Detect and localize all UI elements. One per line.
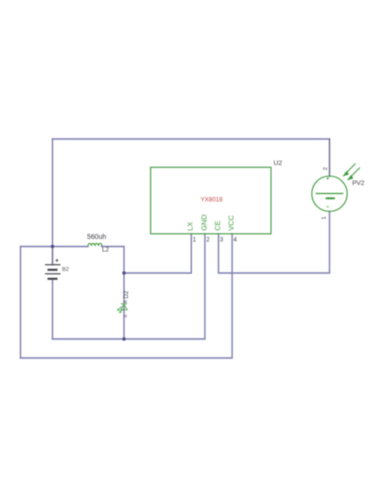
- svg-text:YX8018: YX8018: [201, 197, 224, 204]
- battery B2: [45, 265, 61, 279]
- junction node D2 top: [122, 271, 125, 274]
- svg-text:B2: B2: [62, 267, 69, 273]
- wire battery bottom to inner bottom row: [52, 279, 54, 339]
- svg-text:4: 4: [233, 237, 237, 244]
- svg-text:L2: L2: [102, 246, 109, 253]
- wire left vertical from top row down to battery row: [52, 139, 54, 247]
- wire PV2 top vertical: [329, 139, 331, 176]
- svg-text:560uh: 560uh: [87, 234, 106, 241]
- svg-text:PV2: PV2: [352, 180, 365, 187]
- wire top horizontal battery+ to PV2 top: [53, 138, 330, 140]
- wire battery row horizontal: [21, 246, 89, 248]
- svg-text:2: 2: [206, 237, 210, 244]
- wire battery top lead: [52, 247, 54, 265]
- svg-text:2: 2: [323, 167, 329, 170]
- svg-text:3: 3: [220, 237, 224, 244]
- svg-text:VCC: VCC: [227, 215, 236, 231]
- junction node D2 bottom: [122, 337, 125, 340]
- battery plus sign: [55, 259, 58, 262]
- LED D2: [118, 304, 128, 313]
- wire outer bottom horizontal to VCC: [21, 234, 233, 358]
- svg-text:CE: CE: [213, 220, 222, 230]
- junction node battery top: [51, 245, 54, 248]
- svg-text:LX: LX: [186, 222, 195, 231]
- wire CE pin down and right to PV2 bottom: [219, 211, 330, 273]
- wire D2 branch vertical: [123, 273, 125, 339]
- wire inner bottom horizontal to GND pin: [53, 234, 205, 339]
- svg-text:U2: U2: [274, 160, 283, 167]
- wire inductor right lead to corner: [102, 247, 125, 274]
- svg-text:D2: D2: [124, 290, 130, 298]
- solar cell PV2: [312, 176, 347, 211]
- IC U2 box YX8018: [151, 167, 271, 234]
- light arrows for PV2: [343, 164, 360, 181]
- svg-text:1: 1: [322, 216, 328, 219]
- wire outer-left vertical: [20, 247, 22, 359]
- svg-text:K: K: [123, 300, 128, 303]
- svg-text:GND: GND: [199, 214, 208, 230]
- svg-text:1: 1: [193, 237, 197, 244]
- wire LX pin down and left to inductor node: [124, 234, 191, 273]
- svg-text:A: A: [123, 314, 128, 317]
- inductor L2: [88, 243, 102, 246]
